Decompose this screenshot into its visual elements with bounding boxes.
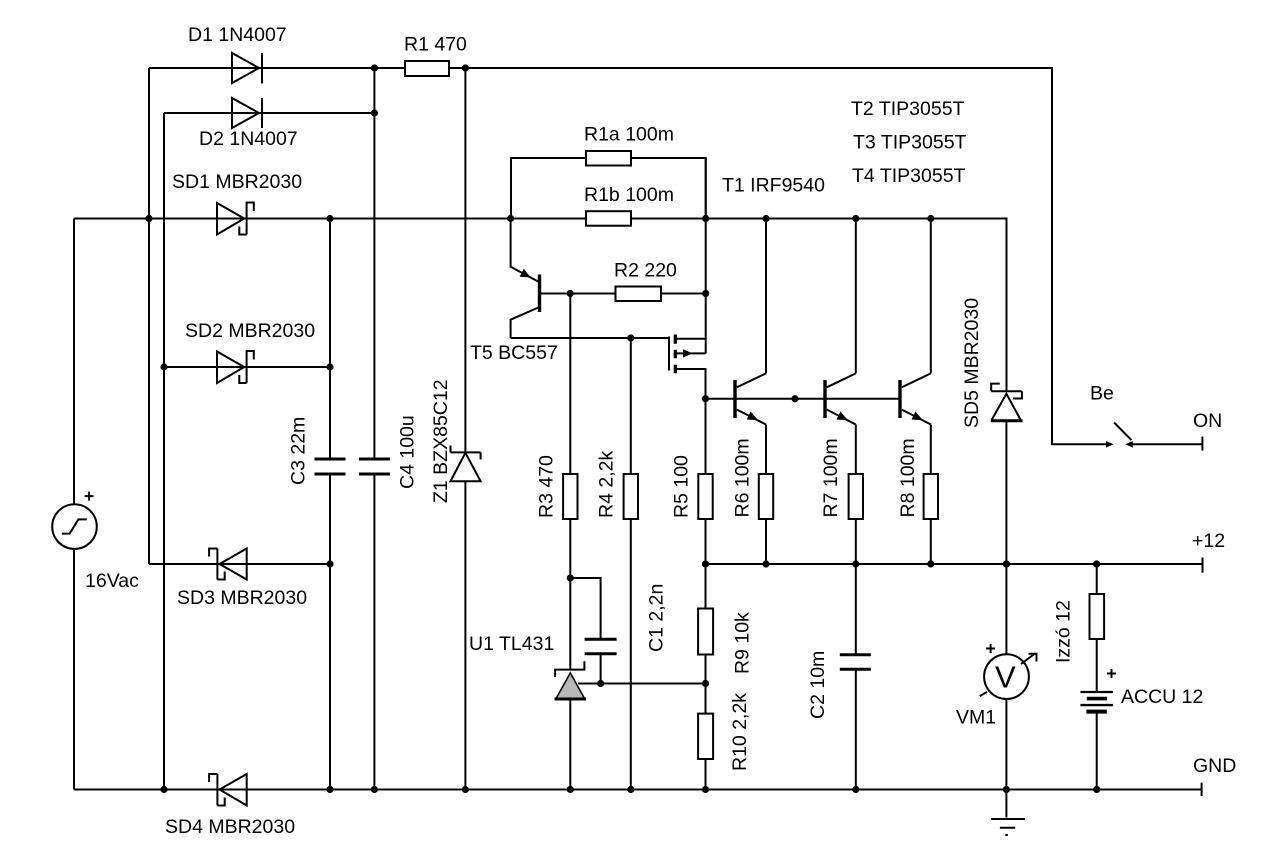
resistor R6 <box>759 474 773 519</box>
svg-text:SD2 MBR2030: SD2 MBR2030 <box>185 320 315 342</box>
svg-text:R3 470: R3 470 <box>535 455 557 518</box>
wire: T2 emitter to R6 <box>765 425 767 565</box>
transistor T4 <box>898 373 931 424</box>
diode SD5 <box>991 384 1023 423</box>
svg-text:VM1: VM1 <box>956 707 996 729</box>
node: D1-R1 <box>371 64 378 71</box>
wire: T3 emitter to R7 <box>855 425 857 565</box>
node: gnd Z1 <box>462 786 469 793</box>
wire: Izzo lamp and ACCU chain <box>1096 564 1098 790</box>
wire: AC source top lead <box>73 219 75 505</box>
wire: T4 collector vertical <box>930 219 932 374</box>
node: ref divider <box>702 680 709 687</box>
wire: Z1 vertical upper <box>464 68 466 452</box>
node: R3 bottom jog <box>567 574 574 581</box>
wire: C2 leads <box>855 564 857 790</box>
wire: vertical D1 branch x=149 <box>148 68 150 564</box>
svg-text:T4 TIP3055T: T4 TIP3055T <box>852 165 966 187</box>
diode SD4 <box>209 774 247 806</box>
transistor T3 <box>823 373 856 424</box>
wire: T1 drain down to base bus <box>677 369 706 399</box>
node: rail SD5 VM1 <box>1003 560 1010 567</box>
node: R2 left R3 <box>567 290 574 297</box>
node: gnd ACCU <box>1093 786 1100 793</box>
node: gnd VM1 <box>1003 786 1010 793</box>
wire: R3 upper vertical <box>569 294 571 475</box>
IC U1 TL431 <box>555 661 587 699</box>
wire: main positive bus y=218.5 with SD5 drop <box>74 219 1007 392</box>
wire: base bus of T2 T3 T4 <box>706 398 901 400</box>
transistor T5 <box>520 269 542 312</box>
svg-text:Izzó 12: Izzó 12 <box>1052 600 1074 663</box>
svg-text:D2 1N4007: D2 1N4007 <box>199 128 298 150</box>
wire: C4 vertical upper <box>373 68 375 459</box>
node: gate line R4 <box>627 334 634 341</box>
svg-text:16Vac: 16Vac <box>85 570 139 592</box>
wire: U1 ref line <box>578 683 706 685</box>
resistor R1a <box>586 151 631 166</box>
capacitor C3 <box>315 459 346 474</box>
wire: +12 output rail <box>706 563 1203 565</box>
svg-text:R2 220: R2 220 <box>614 260 677 282</box>
svg-text:R10 2,2k: R10 2,2k <box>729 693 751 771</box>
svg-text:R8 100m: R8 100m <box>897 438 919 517</box>
wire: VM1 leads <box>1005 564 1007 790</box>
svg-text:SD1 MBR2030: SD1 MBR2030 <box>172 171 302 193</box>
node: rail R5 <box>702 560 709 567</box>
resistor R1b <box>586 211 631 226</box>
wire: T3 collector vertical <box>855 219 857 374</box>
wire: AC source bottom lead <box>73 549 75 790</box>
node: D2-C4 <box>371 109 378 116</box>
svg-text:T3 TIP3055T: T3 TIP3055T <box>853 132 967 154</box>
wire: T5 emitter lead <box>511 219 540 283</box>
svg-text:C4 100u: C4 100u <box>396 415 418 489</box>
wire: ground bus (bottom) <box>74 789 1202 791</box>
resistor R1 <box>405 61 449 76</box>
svg-text:SD5 MBR2030: SD5 MBR2030 <box>961 298 983 428</box>
terminal +12 <box>1202 558 1204 573</box>
svg-text:R1 470: R1 470 <box>404 34 467 56</box>
node: base bus mid <box>791 395 798 402</box>
wire: D1 anode rail (top left) <box>149 67 405 69</box>
svg-text:ON: ON <box>1193 410 1222 432</box>
wire: top rail from R1 right to top-right corner down to switch <box>449 68 1110 444</box>
wire: R4 vertical <box>630 338 632 790</box>
wire: vertical D2 branch x=164 <box>163 113 165 790</box>
svg-text:SD4 MBR2030: SD4 MBR2030 <box>165 816 295 838</box>
wire: T1 body connection <box>677 352 706 354</box>
wire: x=706 vertical (R1a right / T1 source) <box>705 158 707 353</box>
source 16Vac <box>52 492 97 549</box>
svg-text:D1 1N4007: D1 1N4007 <box>188 24 287 46</box>
wire: ground symbol stub <box>1005 790 1007 818</box>
terminal GND <box>1201 783 1203 796</box>
node: rail R6 <box>762 560 769 567</box>
resistor R3 <box>563 474 577 519</box>
svg-text:T5 BC557: T5 BC557 <box>470 342 558 364</box>
svg-text:Z1 BZX85C12: Z1 BZX85C12 <box>430 379 452 503</box>
wire: U1 anode to ground bus <box>569 698 571 789</box>
node: bus R1a left <box>507 215 514 222</box>
resistor R8 <box>924 474 938 519</box>
svg-text:T1 IRF9540: T1 IRF9540 <box>722 175 825 197</box>
resistor R4 <box>624 474 638 519</box>
wire: R9 R10 chain vertical <box>705 564 707 790</box>
diode D2 <box>232 98 262 128</box>
meter VM1 <box>980 644 1037 699</box>
node: SD1 left <box>145 215 152 222</box>
node: R2 right <box>702 290 709 297</box>
wire: C3 vertical <box>329 219 331 790</box>
node: gnd R4 <box>627 786 634 793</box>
node: gnd C4 <box>371 786 378 793</box>
wire: T2 collector vertical <box>765 219 767 374</box>
wire: R3 to U1 cathode <box>569 519 571 670</box>
node: SD2 left <box>160 363 167 370</box>
terminal ON <box>1201 437 1203 451</box>
svg-text:C2 10m: C2 10m <box>807 651 829 719</box>
svg-text:R6 100m: R6 100m <box>731 438 753 517</box>
diode D1 <box>232 53 262 84</box>
svg-text:ACCU 12: ACCU 12 <box>1121 686 1203 708</box>
svg-text:C1 2,2n: C1 2,2n <box>645 584 667 652</box>
battery ACCU 12 <box>1080 669 1116 714</box>
node: gnd R10 <box>702 786 709 793</box>
svg-text:R1a 100m: R1a 100m <box>584 124 674 146</box>
resistor R7 <box>849 474 863 519</box>
node: rail Izzo <box>1093 560 1100 567</box>
resistor Izzo 12 lamp <box>1090 594 1105 639</box>
diode SD2 <box>217 351 254 383</box>
svg-text:R4 2,2k: R4 2,2k <box>595 451 617 518</box>
node: bus T1 source <box>702 215 709 222</box>
svg-text:T2 TIP3055T: T2 TIP3055T <box>851 98 965 120</box>
wire: R1a loop <box>511 158 706 219</box>
node: bus T4 <box>927 215 934 222</box>
svg-text:U1 TL431: U1 TL431 <box>469 633 554 655</box>
svg-text:SD3 MBR2030: SD3 MBR2030 <box>177 587 307 609</box>
switch Be <box>1106 423 1133 448</box>
wire: D2 branch horizontal <box>164 112 374 114</box>
resistor R2 <box>616 287 662 302</box>
node: R1-Z1 <box>462 64 469 71</box>
node: rail R7 C2 <box>852 560 859 567</box>
capacitor C2 <box>840 655 871 670</box>
node: bus T2 <box>762 215 769 222</box>
wire: T1 source connection <box>677 338 706 340</box>
wire: switch right lead <box>1130 443 1203 445</box>
wire: R5 vertical <box>705 399 707 564</box>
ground <box>991 819 1025 835</box>
svg-text:Be: Be <box>1090 383 1114 405</box>
wire: C4 vertical lower <box>373 474 375 790</box>
transistor T2 <box>733 373 766 424</box>
node: gnd C2 <box>852 786 859 793</box>
node: T1 drain base bus <box>702 395 709 402</box>
node: SD2 right <box>326 363 333 370</box>
svg-text:R9 10k: R9 10k <box>731 612 753 674</box>
svg-text:+12: +12 <box>1192 530 1225 552</box>
wire: C1 bottom lead <box>600 654 602 684</box>
svg-text:R5 100: R5 100 <box>670 455 692 518</box>
resistor R10 <box>698 714 713 759</box>
diode SD1 <box>217 203 254 235</box>
wire: SD5 anode down to +12 rail <box>1005 421 1007 564</box>
diode SD3 <box>209 549 247 580</box>
node: gnd U1 <box>567 786 574 793</box>
node: SD1 right C3 <box>326 215 333 222</box>
node: rail R8 <box>927 560 934 567</box>
wire: Z1 vertical lower <box>464 481 466 789</box>
resistor R5 <box>698 474 712 519</box>
wire: T5 collector to gate line <box>511 307 540 338</box>
wire: SD2 branch <box>164 366 330 368</box>
svg-text:R7 100m: R7 100m <box>820 438 842 517</box>
wire: gate line to T1 <box>511 337 669 339</box>
zener Z1 <box>451 446 481 482</box>
svg-text:C3 22m: C3 22m <box>287 417 309 485</box>
wire: R2 horizontal <box>541 293 706 295</box>
transistor T1 <box>669 335 693 374</box>
wire: jog to C1 <box>570 578 600 639</box>
resistor R9 <box>698 609 713 655</box>
capacitor C4 <box>359 459 390 474</box>
svg-text:V: V <box>995 660 1016 695</box>
wire: T4 emitter to R8 <box>930 425 932 565</box>
node: gnd D2 branch <box>160 786 167 793</box>
node: gnd C3 <box>326 786 333 793</box>
node: bus T3 <box>852 215 859 222</box>
capacitor C1 <box>585 639 617 654</box>
wire: SD3 branch <box>149 563 330 565</box>
node: SD3 right <box>326 560 333 567</box>
node: C1 ref <box>597 680 604 687</box>
svg-text:GND: GND <box>1193 755 1236 777</box>
svg-text:R1b 100m: R1b 100m <box>584 184 674 206</box>
